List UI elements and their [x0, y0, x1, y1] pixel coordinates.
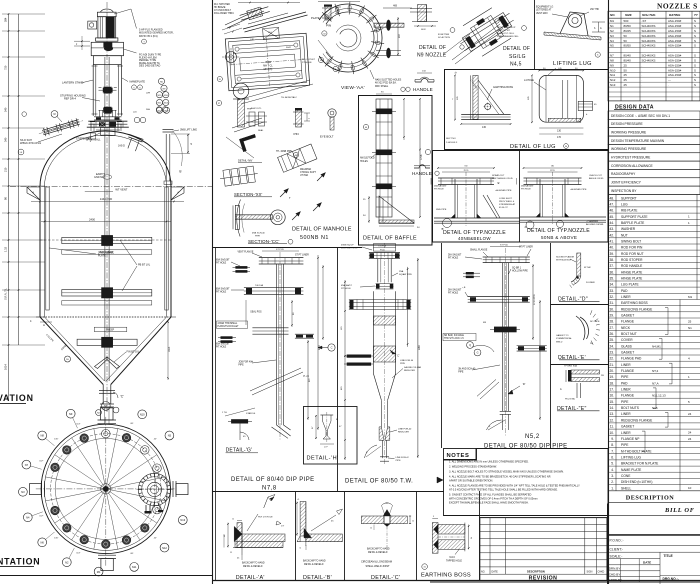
- svg-text:24: 24: [688, 412, 692, 416]
- svg-text:23.: 23.: [609, 351, 614, 355]
- svg-text:NAMEPLATE: NAMEPLATE: [130, 79, 146, 83]
- svg-text:LINE FOR-40: LINE FOR-40: [398, 429, 412, 431]
- svg-text:HANDLE: HANDLE: [412, 171, 432, 176]
- svg-text:SYMMETRICAL: SYMMETRICAL: [556, 337, 573, 340]
- svg-text:2.: 2.: [611, 480, 614, 484]
- svg-text:‘E’: ‘E’: [497, 181, 500, 185]
- svg-text:25: 25: [624, 78, 628, 82]
- svg-text:LINER: LINER: [621, 363, 631, 367]
- svg-text:—: —: [668, 78, 671, 82]
- n52 tip flange: [500, 410, 511, 412]
- svg-text:N1: N1: [610, 24, 614, 28]
- svg-text:S: S: [694, 73, 696, 77]
- svg-text:P/T.HOLE: P/T.HOLE: [216, 347, 227, 349]
- svg-text:ROD FOR NUT: ROD FOR NUT: [621, 252, 644, 256]
- detail H dims: [315, 415, 317, 439]
- svg-text:HINGE PLATE: HINGE PLATE: [621, 277, 643, 281]
- svg-text:STAR WASHER CELL: STAR WASHER CELL: [497, 35, 520, 38]
- date header cell: [620, 559, 622, 582]
- svg-text:N3: N3: [21, 490, 25, 494]
- svg-text:BACKCHIP TO HAND: BACKCHIP TO HAND: [303, 560, 326, 563]
- svg-text:N11: N11: [132, 565, 137, 569]
- svg-text:LUG PLATE: LUG PLATE: [621, 283, 639, 287]
- svg-text:LINE FOR-4#: LINE FOR-4#: [396, 457, 410, 459]
- svg-text:DETAIL OF BAFFLE: DETAIL OF BAFFLE: [363, 236, 417, 242]
- svg-text:REF DR-4: REF DR-4: [64, 97, 77, 101]
- svg-text:G: G: [477, 352, 479, 355]
- svg-text:80A SA/106T: 80A SA/106T: [216, 343, 230, 346]
- arc bolt slot ticks: [322, 12, 331, 21]
- davit swing arc: [237, 200, 241, 237]
- svg-text:FLANGE: FLANGE: [621, 320, 635, 324]
- svg-text:SG/LG: SG/LG: [509, 54, 526, 60]
- n52 dims right: [532, 264, 534, 340]
- svg-text:750: 750: [4, 65, 8, 70]
- n52 Q G balloons: [467, 342, 474, 349]
- svg-text:TITLE: TITLE: [664, 554, 674, 558]
- svg-text:8Pc OUTLET: 8Pc OUTLET: [302, 59, 316, 61]
- svg-text:WORKING PRESSURE: WORKING PRESSURE: [611, 147, 647, 151]
- svg-text:+,B: +,B: [462, 287, 466, 289]
- sweep dim stage 2: [62, 301, 152, 305]
- svg-text:22.: 22.: [609, 357, 614, 361]
- svg-text:S: S: [694, 59, 696, 63]
- svg-text:PLATE: PLATE: [311, 16, 320, 20]
- svg-text:NOTES: NOTES: [447, 453, 470, 459]
- 8050tw reducer 2: [379, 427, 384, 440]
- agitator paddle stage 3 cone: [77, 339, 137, 345]
- svg-text:WITH CONCENTRIC GROOVES OF 0.4: WITH CONCENTRIC GROOVES OF 0.4mm PITCH T…: [449, 497, 538, 501]
- svg-text:113°: 113°: [76, 424, 80, 426]
- 8050tw small flange pair: [376, 283, 394, 285]
- n52 box borders: [441, 243, 443, 448]
- svg-text:113°: 113°: [76, 552, 80, 554]
- svg-text:24: 24: [688, 431, 692, 435]
- svg-text:CTRNAL SUPT: CTRNAL SUPT: [300, 171, 316, 174]
- svg-text:DESCRIPTION: DESCRIPTION: [626, 494, 675, 501]
- typ nozzle neck: [539, 179, 541, 217]
- svg-text:DESIGN PRESSURE: DESIGN PRESSURE: [611, 122, 643, 126]
- svg-text:SWING BOLT: SWING BOLT: [621, 240, 641, 244]
- svg-text:S: S: [694, 44, 696, 48]
- svg-text:4. ALL NOZZLE MARK ARE TO BE: 4. ALL NOZZLE MARK ARE TO BE BRAZED/ETCH…: [449, 475, 551, 479]
- svg-text:DETAIL OF: DETAIL OF: [419, 45, 446, 51]
- svg-text:50: 50: [624, 39, 628, 43]
- svg-text:ASME SEC VIII DIV-1: ASME SEC VIII DIV-1: [638, 114, 670, 118]
- svg-text:HOLLOW PIPE: HOLLOW PIPE: [512, 271, 528, 273]
- 8050tw side arms: [349, 299, 411, 301]
- svg-text:ASSY DTL: ASSY DTL: [251, 107, 262, 110]
- N9 nozzle corner detail: [418, 5, 427, 22]
- motor lifting eye: [88, 21, 97, 29]
- svg-text:25: 25: [624, 83, 628, 87]
- typ nozzle 40nb gusset: [483, 195, 497, 218]
- 8040 flange row 3: [252, 327, 288, 329]
- svg-text:15.: 15.: [609, 400, 614, 404]
- svg-text:N11,12,13: N11,12,13: [652, 394, 666, 398]
- head tangent dash line: [10, 186, 212, 188]
- svg-text:4. ALL NOZZLE FLANGE ARE TO: 4. ALL NOZZLE FLANGE ARE TO BE PROVIDED …: [449, 484, 580, 488]
- lug balloon: [595, 52, 600, 57]
- svg-text:+: +: [32, 191, 34, 195]
- svg-text:CLIENT:-: CLIENT:-: [610, 548, 623, 552]
- svg-text:REDUCING FLANGE: REDUCING FLANGE: [621, 307, 653, 311]
- n52 side flange right: [517, 345, 547, 347]
- svg-text:NTATION: NTATION: [0, 557, 40, 567]
- svg-text:N7: N7: [610, 54, 614, 58]
- angle bracket detail black L: [239, 134, 258, 151]
- angled nozzle assembly on head: [38, 117, 85, 138]
- typ nozzle shell wall: [520, 216, 606, 218]
- svg-text:29.: 29.: [609, 314, 614, 318]
- svg-text:NOZZLE S: NOZZLE S: [657, 2, 698, 11]
- internal weld seam: [40, 239, 171, 241]
- svg-text:SMALL FLANGE: SMALL FLANGE: [470, 249, 488, 252]
- svg-text:N2: N2: [610, 29, 614, 33]
- svg-text:1444 PCD: 1444 PCD: [100, 197, 112, 201]
- svg-text:2NA: 2NA: [399, 270, 404, 273]
- view AA dims right: [397, 17, 399, 56]
- typ nozzle neck: [454, 179, 456, 218]
- svg-text:DIA SA/106T: DIA SA/106T: [434, 185, 447, 188]
- svg-text:ST PCD: ST PCD: [276, 249, 284, 251]
- svg-text:P+BOLTS DOO-LET: P+BOLTS DOO-LET: [218, 326, 240, 328]
- svg-text:S: S: [694, 39, 696, 43]
- svg-text:39.: 39.: [609, 252, 614, 256]
- svg-text:C: C: [331, 346, 333, 350]
- lug T front view: [473, 75, 478, 119]
- section CC flange plate: [235, 205, 239, 229]
- svg-text:EARTHING BOSS: EARTHING BOSS: [493, 86, 513, 89]
- svg-text:DIA SA/106T: DIA SA/106T: [448, 289, 462, 292]
- svg-text:ANGLE ON 45: ANGLE ON 45: [589, 177, 604, 180]
- svg-text:42.: 42.: [609, 233, 614, 237]
- 8040 C balloon right: [328, 344, 335, 351]
- svg-text:41.: 41.: [609, 240, 614, 244]
- svg-text:12 10 PCD: 12 10 PCD: [534, 294, 536, 305]
- svg-text:N4,5: N4,5: [510, 62, 522, 68]
- svg-text:LINER: LINER: [621, 295, 631, 299]
- svg-text:HANDLE: HANDLE: [413, 87, 433, 92]
- 8050tw centerline: [384, 243, 386, 465]
- svg-text:N13: N13: [610, 83, 616, 87]
- svg-text:6.: 6.: [611, 455, 614, 459]
- vessel mounting flange: [88, 120, 127, 122]
- svg-text:WITH A DIVILE: WITH A DIVILE: [556, 259, 571, 262]
- svg-text:WITH TEARDROP: WITH TEARDROP: [497, 26, 516, 29]
- lug hole circle: [485, 104, 491, 110]
- svg-text:27.: 27.: [609, 326, 614, 330]
- vessel centerline: [106, 2, 108, 412]
- svg-text:10.: 10.: [609, 431, 614, 435]
- sweep dim stage 1: [62, 250, 152, 254]
- lug plate stub flange: [578, 101, 592, 110]
- typ nozzle welds: [536, 213, 540, 217]
- detail A weld drawing: [237, 523, 242, 548]
- 8040 top flange: [259, 257, 304, 259]
- detail D box: [551, 304, 609, 306]
- svg-text:N1: N1: [104, 404, 108, 408]
- svg-text:3NB LIFT LINE: 3NB LIFT LINE: [180, 129, 197, 132]
- manhole small x-rect: [263, 27, 280, 39]
- crown flange band: [94, 116, 122, 118]
- detail C weld drawing: [361, 516, 384, 524]
- svg-text:CORROSION ALLOWANCE: CORROSION ALLOWANCE: [611, 164, 653, 168]
- svg-text:25: 25: [688, 320, 692, 324]
- svg-text:NO.: NO.: [481, 571, 486, 574]
- detail C angle arc: [382, 503, 393, 506]
- svg-text:19.: 19.: [609, 375, 614, 379]
- svg-text:26.: 26.: [609, 332, 614, 336]
- top pin bolt: [325, 6, 331, 20]
- svg-text:S: S: [694, 34, 696, 38]
- svg-text:SCH40/XS: SCH40/XS: [642, 34, 656, 38]
- SG LG diagonal assembly: [453, 1, 521, 62]
- N9 dims: [414, 25, 436, 27]
- svg-text:DETAIL-'H': DETAIL-'H': [307, 456, 339, 462]
- svg-text:FLANGE PAD: FLANGE PAD: [621, 357, 642, 361]
- svg-text:SCH40/XS: SCH40/XS: [642, 44, 656, 48]
- internal dimension 1444 PCD: [31, 200, 184, 202]
- svg-text:Q: Q: [469, 344, 471, 347]
- svg-text:80A SA/106T: 80A SA/106T: [216, 288, 230, 291]
- svg-text:130: 130: [557, 130, 562, 133]
- svg-text:S: S: [694, 83, 696, 87]
- cone: [40, 317, 103, 385]
- arc inner hub: [340, 29, 357, 47]
- baffle right: [165, 187, 168, 310]
- svg-text:4 BAR THK/SHELL: 4 BAR THK/SHELL: [218, 322, 238, 325]
- lug front dims: [454, 75, 456, 119]
- svg-text:50NB & ABOVE: 50NB & ABOVE: [541, 235, 577, 240]
- svg-text:17.: 17.: [609, 388, 614, 392]
- svg-text:DETAIL-'NN': DETAIL-'NN': [238, 159, 253, 163]
- svg-text:PIPE: PIPE: [400, 363, 406, 365]
- top dim lines middle cluster: [238, 2, 300, 4]
- svg-text:EQUIPMENT LG: EQUIPMENT LG: [536, 7, 554, 9]
- svg-text:N4: N4: [610, 39, 614, 43]
- detail H box: [304, 407, 358, 465]
- svg-text:ASA-150#: ASA-150#: [668, 29, 682, 33]
- svg-text:LINER: LINER: [621, 431, 631, 435]
- parts list table: [608, 194, 700, 196]
- svg-text:31.: 31.: [609, 301, 614, 305]
- agitator paddle stage 2: [62, 290, 152, 296]
- svg-text:LUG: LUG: [621, 203, 628, 207]
- svg-text:PROV WELD &: PROV WELD &: [499, 201, 515, 203]
- svg-text:1.: 1.: [611, 486, 614, 490]
- svg-text:P/T.HOLE: P/T.HOLE: [216, 292, 227, 294]
- svg-text:'B': 'B': [179, 169, 182, 173]
- svg-text:JOINT EFFICIENCY: JOINT EFFICIENCY: [611, 181, 642, 185]
- svg-text:34.: 34.: [609, 283, 614, 287]
- svg-text:PIPE: PIPE: [621, 443, 629, 447]
- n52 flange row 2: [468, 296, 530, 298]
- crown nozzle stub: [101, 127, 115, 135]
- svg-text:TH- AVDE/TALC: TH- AVDE/TALC: [281, 96, 297, 99]
- svg-text:2257: 2257: [319, 344, 321, 350]
- detail E2 drawing: [571, 370, 600, 374]
- baffle detail box: [359, 96, 433, 246]
- parts list group brackets: [667, 308, 669, 335]
- svg-text:T#4 PCS: T#4 PCS: [378, 246, 387, 248]
- svg-text:ST PT LINER: ST PT LINER: [519, 247, 533, 249]
- svg-text:3N AND SCH-40: 3N AND SCH-40: [458, 368, 476, 371]
- svg-text:157°: 157°: [39, 515, 43, 517]
- svg-text:DETAIL-"E": DETAIL-"E": [557, 406, 587, 412]
- cone LVL balloon: [65, 356, 71, 362]
- typ nozzle centerline: [465, 172, 467, 226]
- svg-text:DATE: DATE: [492, 571, 499, 574]
- svg-text:SCH40/XS: SCH40/XS: [642, 59, 656, 63]
- svg-text:ASA-150#: ASA-150#: [668, 39, 682, 43]
- bolt pair detail mid cluster: [249, 112, 255, 126]
- svg-text:135°: 135°: [54, 438, 58, 440]
- svg-text:2-HOLES 3: 2-HOLES 3: [446, 142, 458, 144]
- svg-text:BRKT ANGLE ON 45: BRKT ANGLE ON 45: [492, 177, 513, 180]
- svg-text:SCALE:-: SCALE:-: [610, 554, 623, 558]
- lug plate side view: [539, 75, 583, 122]
- svg-text:25.: 25.: [609, 338, 614, 342]
- svg-text:LETTERED AT: LETTERED AT: [536, 9, 552, 12]
- svg-text:S: S: [694, 24, 696, 28]
- svg-text:SLIDING FLANGE: SLIDING FLANGE: [556, 256, 575, 259]
- svg-text:DETAIL OF: DETAIL OF: [503, 46, 530, 52]
- 8050tw wide pipe section: [372, 291, 374, 373]
- svg-text:N12: N12: [610, 78, 616, 82]
- svg-text:L50 THK: L50 THK: [590, 9, 599, 11]
- crown stub nozzles: [90, 121, 95, 123]
- svg-text:ROD FOR PIN: ROD FOR PIN: [621, 246, 643, 250]
- svg-text:PAD: PAD: [621, 289, 628, 293]
- svg-text:P/T.HOLE: P/T.HOLE: [341, 288, 351, 290]
- svg-text:+ALIGNED PIPE: +ALIGNED PIPE: [570, 188, 587, 191]
- svg-text:N10: N10: [140, 413, 145, 417]
- svg-text:ASA-150#: ASA-150#: [668, 73, 682, 77]
- svg-text:68°: 68°: [130, 423, 133, 425]
- svg-text:SCH40/XS: SCH40/XS: [642, 24, 656, 28]
- svg-text:24: 24: [688, 437, 692, 441]
- svg-text:43.: 43.: [609, 227, 614, 231]
- svg-text:HYDROTEST PRESSURE: HYDROTEST PRESSURE: [611, 156, 651, 160]
- lifting lug dim bracket: [592, 21, 605, 23]
- lug box borders: [444, 69, 608, 71]
- typ nozzle box: [433, 151, 609, 243]
- svg-text:N5,2: N5,2: [525, 434, 540, 440]
- n52 mid black coupling: [494, 327, 517, 333]
- svg-text:BAFFLE PLATE: BAFFLE PLATE: [621, 221, 645, 225]
- n52 pipe: [501, 263, 503, 411]
- baffle dim right: [419, 99, 421, 217]
- orientation balloons: [101, 402, 110, 411]
- svg-text:PIPE: PIPE: [396, 460, 402, 462]
- svg-text:N4: N4: [26, 516, 30, 520]
- detail A flag symbol: [264, 497, 268, 508]
- svg-text:38.: 38.: [609, 258, 614, 262]
- svg-text:SUPPORT PLATE: SUPPORT PLATE: [621, 215, 648, 219]
- 8050tw narrow pipe: [380, 400, 382, 427]
- svg-text:APPD.BY: APPD.BY: [609, 578, 622, 582]
- svg-text:NO.: NO.: [610, 13, 616, 17]
- svg-text:N11: N11: [610, 73, 615, 77]
- svg-text:SCH.THK.: SCH.THK.: [642, 13, 656, 17]
- svg-text:SQ BR 1: SQ BR 1: [512, 268, 522, 270]
- svg-text:N LINER: N LINER: [586, 282, 595, 284]
- svg-text:PB BT LVL: PB BT LVL: [138, 264, 151, 267]
- typ nozzle flange: [524, 177, 582, 179]
- svg-text:SIZE: SIZE: [625, 13, 633, 17]
- svg-text:SHELL WELD JOINT: SHELL WELD JOINT: [366, 564, 391, 568]
- design data table: [608, 111, 700, 119]
- orientation crosshair: [36, 488, 176, 490]
- svg-text:WELDPAD: WELDPAD: [300, 168, 312, 171]
- svg-text:DESCRIPTION: DESCRIPTION: [527, 570, 545, 574]
- svg-text:ASA-150#: ASA-150#: [668, 68, 682, 72]
- svg-text:SCH40/XS: SCH40/XS: [642, 29, 656, 33]
- svg-text:70°: 70°: [385, 503, 388, 505]
- svg-text:7.: 7.: [611, 449, 614, 453]
- svg-text:SEAL POS: SEAL POS: [250, 311, 262, 314]
- svg-text:5642: 5642: [286, 47, 292, 49]
- svg-text:ROD HANDLE: ROD HANDLE: [621, 264, 643, 268]
- agitator motor M1: [100, 9, 113, 12]
- svg-text:VATION: VATION: [0, 393, 34, 403]
- svg-text:11.: 11.: [610, 425, 614, 429]
- detail G subdrawing: [231, 419, 248, 423]
- left bottom border: [0, 575, 212, 577]
- svg-text:DES 2450 DET/AD: DES 2450 DET/AD: [139, 65, 160, 68]
- svg-text:37.: 37.: [609, 264, 614, 268]
- 8040 break diagonals: [250, 368, 301, 391]
- svg-text:NAME PLATE: NAME PLATE: [621, 468, 642, 472]
- svg-text:OD: OD: [551, 166, 555, 168]
- manhole on head: [125, 134, 144, 152]
- svg-text:45NB SQ/LP: 45NB SQ/LP: [341, 245, 354, 247]
- svg-text:SIGN: SIGN: [587, 571, 593, 574]
- svg-text:HINGE PLATE: HINGE PLATE: [621, 270, 643, 274]
- svg-text:CHKD: CHKD: [598, 571, 605, 574]
- svg-text:BOLTS ATTN D2: BOLTS ATTN D2: [341, 247, 358, 250]
- orientation right nozzle: [176, 484, 188, 495]
- svg-text:DETAIL-'E': DETAIL-'E': [558, 355, 586, 361]
- svg-text:SCH40/XS: SCH40/XS: [642, 54, 656, 58]
- svg-text:45°: 45°: [154, 537, 157, 539]
- typ nozzle dims: [438, 167, 494, 169]
- pin dim bracket: [304, 112, 310, 114]
- svg-text:25: 25: [624, 73, 628, 77]
- svg-text:STAR SS: STAR SS: [246, 412, 256, 415]
- svg-text:REDUCING FLANGE: REDUCING FLANGE: [621, 418, 653, 422]
- svg-text:SUPPORT: SUPPORT: [621, 196, 637, 200]
- svg-text:ROD STOPER: ROD STOPER: [621, 258, 643, 262]
- 8040 right flange pair: [295, 333, 314, 335]
- svg-text:L4 HOLE: L4 HOLE: [524, 79, 534, 82]
- svg-text:SR BAR, 3/4 MALE: SR BAR, 3/4 MALE: [444, 334, 464, 337]
- detail H funnel: [320, 414, 333, 416]
- svg-text:TP BRG: TP BRG: [564, 366, 572, 368]
- svg-text:80/25: 80/25: [624, 29, 632, 33]
- svg-text:N5: N5: [168, 434, 172, 438]
- svg-text:80/50: 80/50: [624, 24, 632, 28]
- svg-text:P.T HOLE: P.T HOLE: [302, 62, 312, 64]
- detail E1 drawing: [576, 316, 585, 340]
- nozzle table: [608, 11, 700, 101]
- balloon callouts manhole: [217, 76, 222, 81]
- arm flange right: [374, 22, 404, 24]
- svg-text:30.: 30.: [609, 307, 614, 311]
- svg-text:N4,M1: N4,M1: [652, 344, 661, 348]
- motor label leader: [114, 9, 137, 29]
